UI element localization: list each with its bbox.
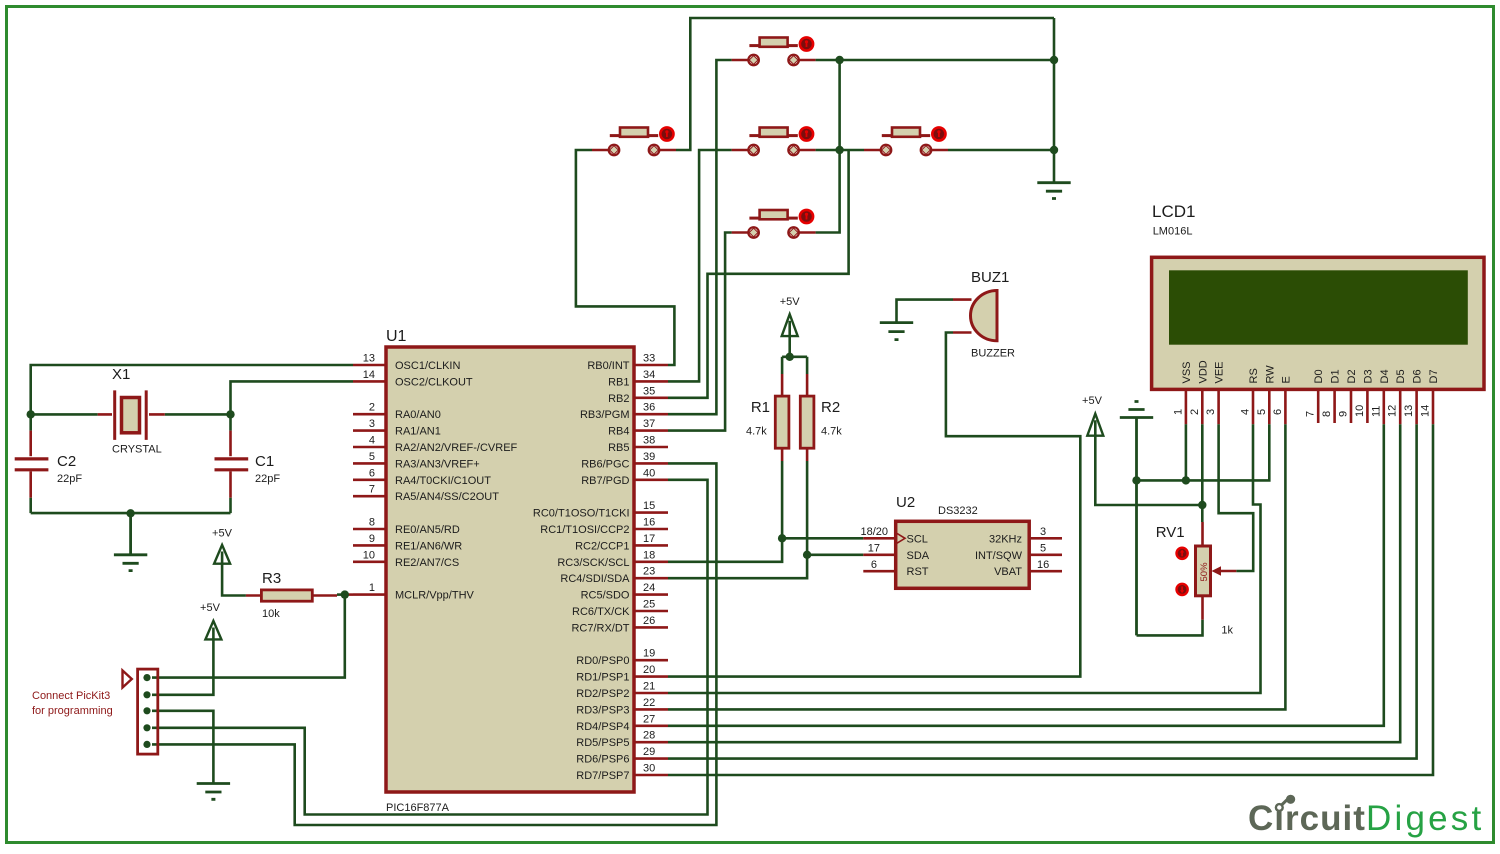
svg-text:RST: RST [907, 566, 929, 578]
svg-text:E: E [1280, 376, 1292, 383]
svg-text:RB3/PGM: RB3/PGM [580, 409, 630, 421]
svg-text:U2: U2 [896, 494, 915, 511]
buzzer BUZ1 [953, 269, 1015, 360]
wire SW5 feed to RB2 pin35 [668, 150, 849, 398]
microcontroller U1 PIC16F877A body [386, 328, 634, 814]
svg-text:37: 37 [643, 418, 655, 430]
svg-text:RA3/AN3/VREF+: RA3/AN3/VREF+ [395, 458, 480, 470]
svg-text:RB7/PGD: RB7/PGD [581, 475, 629, 487]
svg-text:9: 9 [1338, 411, 1350, 417]
wire D4 to RD4 pin27 [668, 424, 1384, 726]
U2 pin names [907, 533, 1023, 578]
svg-text:2: 2 [369, 402, 375, 414]
node VSS junction [1182, 476, 1190, 484]
svg-text:17: 17 [643, 533, 655, 545]
svg-text:+5V: +5V [212, 528, 233, 540]
wire right rail down [1053, 18, 1056, 183]
svg-text:12: 12 [1387, 405, 1399, 417]
svg-text:6: 6 [871, 559, 877, 571]
U2 pin numbers [860, 526, 1049, 571]
power +5V pullups [780, 296, 801, 357]
wire RV1 bottom to ground rail [1137, 620, 1203, 636]
wire ground rail to VSS RW [1137, 424, 1270, 480]
svg-text:D6: D6 [1412, 369, 1424, 383]
label Connect PicKit3 [32, 690, 113, 717]
node crystal left [27, 410, 35, 418]
ground button rail [1037, 183, 1070, 199]
svg-text:RD7/PSP7: RD7/PSP7 [576, 770, 629, 782]
svg-text:3: 3 [1205, 409, 1217, 415]
wire SW3 right to SW5 left [816, 149, 864, 152]
svg-text:RA4/T0CKI/C1OUT: RA4/T0CKI/C1OUT [395, 475, 491, 487]
wire SCL net R1 to RC3 pin18 [668, 461, 782, 562]
svg-text:D0: D0 [1313, 369, 1325, 383]
svg-text:29: 29 [643, 746, 655, 758]
node rail mid junction [835, 146, 843, 154]
svg-text:5: 5 [1040, 543, 1046, 555]
LCD pin numbers [1172, 405, 1431, 417]
svg-text:RA2/AN2/VREF-/CVREF: RA2/AN2/VREF-/CVREF [395, 442, 518, 454]
svg-text:+5V: +5V [780, 296, 801, 308]
svg-text:D5: D5 [1395, 369, 1407, 383]
svg-text:BUZ1: BUZ1 [971, 269, 1009, 286]
svg-text:VEE: VEE [1214, 361, 1226, 383]
node MCLR junction [341, 590, 349, 598]
ground programming header [197, 784, 230, 800]
wire header pin4 to RB7 [152, 480, 708, 815]
svg-text:40: 40 [643, 467, 655, 479]
svg-text:32KHz: 32KHz [989, 533, 1022, 545]
node pullup tee [786, 353, 794, 361]
svg-text:MCLR/Vpp/THV: MCLR/Vpp/THV [395, 590, 475, 602]
svg-text:BUZZER: BUZZER [971, 348, 1015, 360]
power +5V LCD [1082, 395, 1202, 505]
svg-text:16: 16 [643, 517, 655, 529]
svg-text:22pF: 22pF [255, 473, 280, 485]
svg-text:+5V: +5V [200, 602, 221, 614]
svg-text:25: 25 [643, 599, 655, 611]
svg-text:INT/SQW: INT/SQW [975, 550, 1023, 562]
svg-text:RA1/AN1: RA1/AN1 [395, 426, 441, 438]
svg-text:38: 38 [643, 435, 655, 447]
svg-text:LCD1: LCD1 [1152, 202, 1195, 221]
connector orientation arrow [123, 671, 132, 688]
svg-text:50%: 50% [1199, 562, 1210, 582]
svg-text:SCL: SCL [907, 533, 928, 545]
svg-text:RD6/PSP6: RD6/PSP6 [576, 754, 629, 766]
wire E to RD3 pin22 [668, 424, 1285, 709]
svg-text:18: 18 [643, 549, 655, 561]
svg-text:11: 11 [1370, 406, 1382, 417]
svg-text:RE2/AN7/CS: RE2/AN7/CS [395, 557, 459, 569]
svg-text:33: 33 [643, 353, 655, 365]
svg-text:RD5/PSP5: RD5/PSP5 [576, 737, 629, 749]
svg-text:RD4/PSP4: RD4/PSP4 [576, 721, 629, 733]
svg-text:LM016L: LM016L [1153, 226, 1193, 238]
svg-text:18/20: 18/20 [860, 526, 888, 538]
U1 left pin stubs [353, 365, 386, 595]
wire pullup tee [782, 355, 807, 358]
push button SW1 left [592, 127, 676, 155]
svg-text:for programming: for programming [32, 705, 113, 717]
svg-text:RA5/AN4/SS/C2OUT: RA5/AN4/SS/C2OUT [395, 491, 499, 503]
svg-text:RD0/PSP0: RD0/PSP0 [576, 655, 629, 667]
svg-text:RW: RW [1264, 365, 1276, 384]
node ground tee [1132, 476, 1140, 484]
resistor R2 4.7k [800, 357, 842, 461]
svg-text:RC1/T1OSI/CCP2: RC1/T1OSI/CCP2 [540, 524, 629, 536]
U1 right pin stubs [634, 365, 668, 775]
svg-text:1k: 1k [1221, 625, 1233, 637]
svg-text:39: 39 [643, 451, 655, 463]
svg-text:OSC2/CLKOUT: OSC2/CLKOUT [395, 376, 473, 388]
svg-text:R2: R2 [821, 399, 840, 416]
wire SW2 right rail [816, 59, 1054, 62]
svg-text:14: 14 [1420, 405, 1432, 417]
wire SCL to U2 [782, 537, 863, 540]
svg-text:D2: D2 [1346, 369, 1358, 383]
wire VSS drop [1185, 424, 1188, 480]
svg-text:C2: C2 [57, 453, 76, 470]
svg-text:27: 27 [643, 713, 655, 725]
svg-text:13: 13 [1403, 405, 1415, 417]
svg-text:RD1/PSP1: RD1/PSP1 [576, 672, 629, 684]
node right rail lower [1050, 146, 1058, 154]
resistor R1 4.7k [746, 357, 789, 461]
svg-text:X1: X1 [112, 366, 130, 383]
push button SW3 middle [732, 127, 816, 155]
wire buzzer bottom to RD1 pin20 [668, 333, 1080, 677]
svg-text:D4: D4 [1379, 369, 1391, 383]
LCD LCD1 LM016L body [1152, 202, 1484, 389]
wire D6 to RD6 pin29 [668, 424, 1417, 758]
svg-text:D3: D3 [1362, 369, 1374, 383]
svg-text:RA0/AN0: RA0/AN0 [395, 409, 441, 421]
svg-text:8: 8 [369, 517, 375, 529]
svg-text:RD2/PSP2: RD2/PSP2 [576, 688, 629, 700]
svg-text:Cırcuit: Cırcuit [1248, 799, 1366, 838]
svg-text:5: 5 [1256, 409, 1268, 415]
svg-text:24: 24 [643, 582, 655, 594]
wire VDD drop [1201, 424, 1204, 522]
U2 clock mark [897, 533, 905, 543]
svg-text:RV1: RV1 [1156, 524, 1185, 541]
svg-text:10k: 10k [262, 608, 280, 620]
svg-text:16: 16 [1037, 559, 1049, 571]
svg-text:1: 1 [1172, 409, 1184, 415]
svg-text:8: 8 [1321, 411, 1333, 417]
ground LCD flipped [1120, 402, 1153, 636]
svg-text:4: 4 [369, 435, 375, 447]
wire header pin3 to ground [152, 711, 213, 784]
svg-text:RC0/T1OSO/T1CKI: RC0/T1OSO/T1CKI [533, 508, 630, 520]
wire VEE to wiper [1219, 424, 1254, 571]
svg-text:RB5: RB5 [608, 442, 629, 454]
logo CircuitDigest [1248, 795, 1484, 838]
svg-text:VSS: VSS [1181, 361, 1193, 383]
svg-text:RC7/RX/DT: RC7/RX/DT [571, 622, 629, 634]
LCD pin stubs [1186, 389, 1433, 424]
svg-text:30: 30 [643, 763, 655, 775]
power +5V programming header [152, 602, 221, 695]
svg-text:RE0/AN5/RD: RE0/AN5/RD [395, 524, 460, 536]
svg-text:RS: RS [1248, 368, 1260, 383]
svg-text:6: 6 [369, 467, 375, 479]
wire SW1 left to RB0 pin33 [576, 150, 675, 365]
svg-text:19: 19 [643, 648, 655, 660]
power +5V above R3 [212, 528, 246, 596]
potentiometer RV1 1k [1156, 522, 1237, 637]
svg-text:RB4: RB4 [608, 426, 629, 438]
wire D7 to RD7 pin30 [668, 424, 1433, 775]
capacitor C2 [15, 414, 83, 513]
svg-text:35: 35 [643, 385, 655, 397]
LCD pin names [1181, 360, 1440, 383]
svg-text:RB0/INT: RB0/INT [587, 360, 629, 372]
svg-text:10: 10 [1354, 405, 1366, 417]
svg-text:RC6/TX/CK: RC6/TX/CK [572, 606, 630, 618]
svg-text:RC4/SDI/SDA: RC4/SDI/SDA [560, 573, 630, 585]
crystal X1 [31, 366, 231, 456]
svg-text:20: 20 [643, 664, 655, 676]
svg-text:DS3232: DS3232 [938, 505, 978, 517]
svg-text:Connect PicKit3: Connect PicKit3 [32, 690, 110, 702]
RV1 actuator down [1177, 584, 1188, 595]
svg-text:13: 13 [363, 353, 375, 365]
svg-text:7: 7 [1305, 411, 1317, 417]
wire SDA net R2 to RC4 pin23 [668, 461, 807, 578]
svg-text:RB2: RB2 [608, 393, 629, 405]
svg-text:14: 14 [363, 369, 375, 381]
svg-text:RE1/AN6/WR: RE1/AN6/WR [395, 540, 462, 552]
wire buzzer top to ground [897, 300, 954, 323]
svg-text:3: 3 [1040, 526, 1046, 538]
svg-text:D7: D7 [1428, 369, 1440, 383]
svg-text:PIC16F877A: PIC16F877A [386, 802, 450, 814]
U1 left pin names [395, 360, 518, 602]
svg-text:23: 23 [643, 566, 655, 578]
svg-text:RC3/SCK/SCL: RC3/SCK/SCL [557, 557, 629, 569]
node right rail upper [1050, 56, 1058, 64]
svg-text:+5V: +5V [1082, 395, 1103, 407]
svg-text:U1: U1 [386, 328, 407, 345]
capacitor C1 [215, 414, 281, 513]
wire MCLR to programming header pin1 [152, 595, 345, 678]
push button SW2 top [732, 37, 816, 65]
push button SW5 right [864, 127, 948, 155]
svg-text:36: 36 [643, 402, 655, 414]
resistor R3 10k [246, 570, 353, 620]
node crystal right [226, 410, 234, 418]
svg-text:CRYSTAL: CRYSTAL [112, 444, 162, 456]
svg-text:2: 2 [1189, 409, 1201, 415]
node rail top junction [835, 56, 843, 64]
U1 left pin numbers [363, 353, 375, 595]
svg-text:Digest: Digest [1366, 799, 1484, 838]
svg-text:RD3/PSP3: RD3/PSP3 [576, 704, 629, 716]
svg-text:26: 26 [643, 615, 655, 627]
ground crystal [114, 513, 147, 570]
wire OSC1 net [31, 365, 353, 414]
wire header pin5 to RB6 [152, 463, 716, 825]
svg-text:RB6/PGC: RB6/PGC [581, 458, 629, 470]
svg-text:RC2/CCP1: RC2/CCP1 [575, 540, 629, 552]
svg-text:10: 10 [363, 549, 375, 561]
svg-text:15: 15 [643, 500, 655, 512]
wire RS to RD2 pin21 [668, 424, 1261, 693]
connector J1 PicKit header [138, 669, 158, 754]
node SDA junction [803, 551, 811, 559]
wire SW5 right to ground rail [948, 149, 1054, 152]
U2 pin stubs [863, 538, 1062, 571]
svg-text:9: 9 [369, 533, 375, 545]
RV1 actuator up [1177, 548, 1188, 559]
svg-text:21: 21 [643, 681, 655, 693]
svg-text:VDD: VDD [1197, 360, 1209, 383]
ground buzzer [880, 323, 913, 340]
wire SW4 left to RB4 pin37 [668, 233, 732, 431]
svg-text:4: 4 [1240, 409, 1252, 415]
svg-text:22pF: 22pF [57, 473, 82, 485]
svg-text:5: 5 [369, 451, 375, 463]
svg-text:OSC1/CLKIN: OSC1/CLKIN [395, 360, 460, 372]
wire SDA to U2 [807, 553, 863, 556]
svg-text:C1: C1 [255, 453, 274, 470]
wire SW1 right to top rail [676, 18, 1054, 150]
U1 right pin names [533, 360, 630, 782]
svg-text:RB1: RB1 [608, 376, 629, 388]
svg-text:SDA: SDA [907, 550, 930, 562]
wire D5 to RD5 pin28 [668, 424, 1400, 742]
wire SW2 left to RB3 pin36 [668, 60, 732, 414]
svg-text:22: 22 [643, 697, 655, 709]
svg-text:7: 7 [369, 484, 375, 496]
svg-text:D1: D1 [1330, 369, 1342, 383]
svg-text:34: 34 [643, 369, 655, 381]
svg-text:R3: R3 [262, 570, 281, 587]
svg-text:6: 6 [1272, 409, 1284, 415]
wire capacitor common [31, 512, 231, 515]
node VDD junction [1198, 501, 1206, 509]
svg-text:17: 17 [868, 543, 880, 555]
svg-text:4.7k: 4.7k [746, 426, 767, 438]
node capacitor common [126, 509, 134, 517]
svg-text:VBAT: VBAT [994, 566, 1022, 578]
node SCL junction [778, 534, 786, 542]
svg-text:1: 1 [369, 582, 375, 594]
svg-text:RC5/SDO: RC5/SDO [581, 590, 630, 602]
U1 right pin numbers [643, 353, 655, 775]
wire OSC2 net [231, 381, 354, 414]
wire SW3 left to RB1 pin34 [668, 150, 732, 381]
RTC U2 DS3232 body [896, 494, 1029, 588]
svg-text:4.7k: 4.7k [821, 426, 842, 438]
push button SW4 bottom [732, 210, 816, 238]
svg-text:28: 28 [643, 730, 655, 742]
svg-text:3: 3 [369, 418, 375, 430]
wire SW4 right riser [816, 60, 840, 233]
svg-text:R1: R1 [751, 399, 770, 416]
